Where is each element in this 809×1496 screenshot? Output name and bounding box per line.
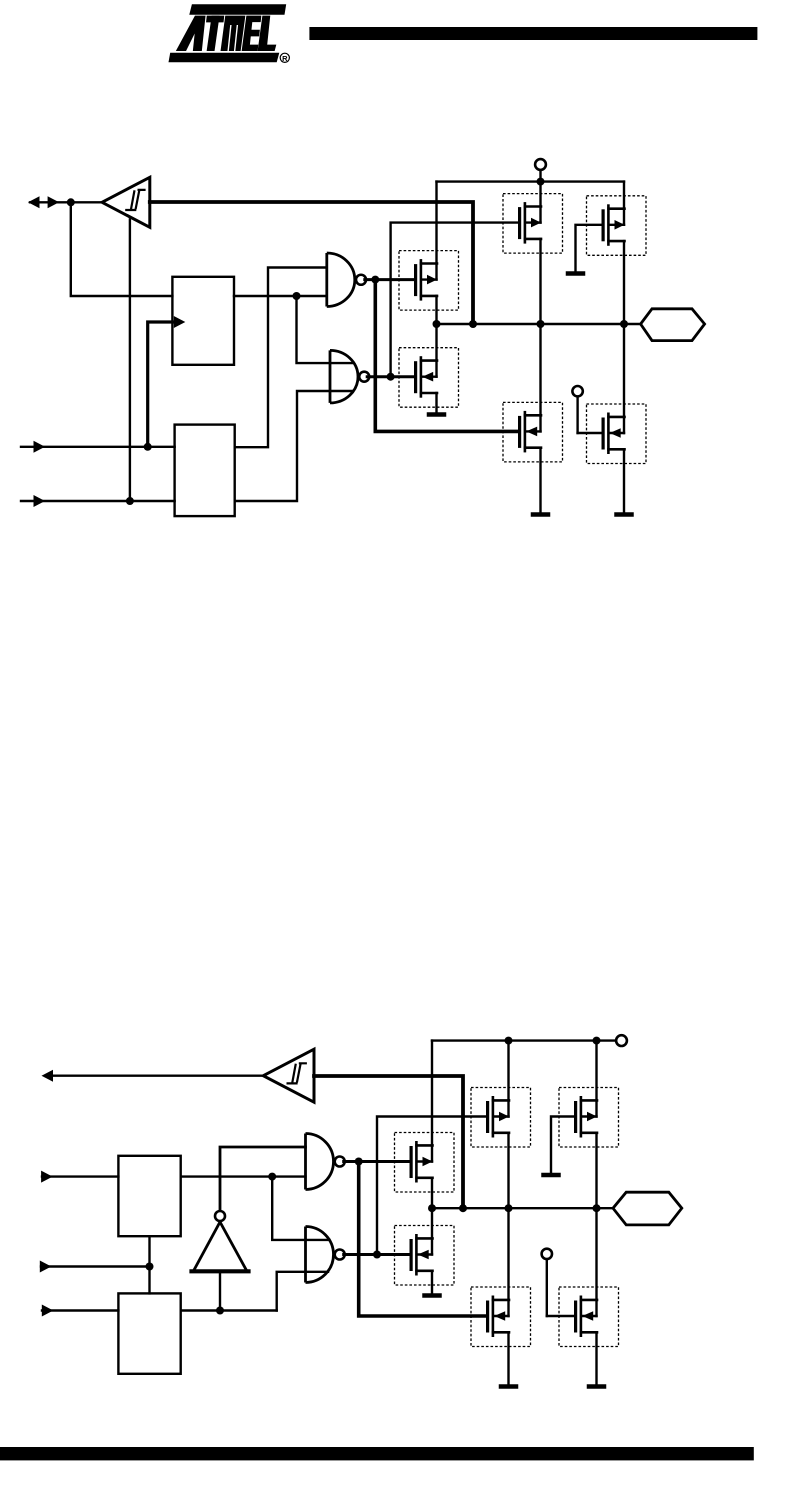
pmos P2b bbox=[559, 1088, 619, 1148]
nmos N2b bbox=[559, 1287, 619, 1347]
wire XB output to NAND GB lower input bbox=[277, 1272, 328, 1311]
wire X2 upper output to NAND G1 upper input bbox=[235, 268, 327, 448]
wire N2 source to ground bbox=[623, 449, 625, 513]
wire P1 source to output rail bbox=[539, 239, 541, 324]
wire pad to schmitt U1 bbox=[71, 201, 102, 203]
node VDD2/P1b junction bbox=[505, 1037, 513, 1045]
pmos M1 bbox=[399, 251, 459, 311]
node GB output junction bbox=[373, 1251, 381, 1259]
header rule bar bbox=[309, 27, 757, 40]
ground at P2 gate bbox=[566, 271, 586, 276]
wire X2 lower output to NAND G2 lower input bbox=[235, 391, 352, 501]
wire M1b source to output rail 2 bbox=[431, 1178, 433, 1208]
VDD terminal circle bbox=[535, 159, 546, 182]
wire VDD2 to P2b drain bbox=[595, 1041, 597, 1117]
pad bidirectional arrow bbox=[28, 196, 71, 208]
node rail2 M column bbox=[428, 1204, 436, 1212]
input IN2 arrow bbox=[21, 495, 175, 507]
wire M1 source to output rail bbox=[435, 296, 437, 324]
node rail P1/N1 column bbox=[537, 320, 545, 328]
schmitt trigger buffer U2 bbox=[263, 1049, 314, 1102]
wire pad junction down to latch X1 input bbox=[71, 202, 173, 296]
wire G2 output to P1 gate bbox=[391, 223, 518, 377]
pmos P2 bbox=[587, 196, 647, 256]
wire rail2 to N1b drain bbox=[507, 1208, 509, 1316]
thick wire G1 output to N1 gate bbox=[375, 280, 518, 432]
pmos P1 bbox=[503, 194, 563, 254]
node G2 output junction bbox=[387, 373, 395, 381]
ground at M2b bbox=[422, 1293, 442, 1298]
ground at N1 bbox=[531, 512, 551, 517]
VDD rail bbox=[437, 180, 625, 182]
input INA arrow bbox=[41, 1171, 118, 1183]
wire N2b gate bbox=[547, 1315, 574, 1317]
wire VDD to P2 drain bbox=[623, 182, 625, 225]
wire XA output to NAND GB upper input bbox=[272, 1177, 329, 1240]
wire VDD to M1 drain bbox=[435, 182, 437, 280]
latch X2 bbox=[175, 425, 235, 516]
ground at N2 bbox=[614, 512, 634, 517]
wire VDD to P1 drain bbox=[539, 182, 541, 223]
wire P2 source to output rail bbox=[623, 241, 625, 324]
ground at N2b bbox=[587, 1384, 607, 1389]
thick wire U2 input from output rail bbox=[314, 1076, 463, 1208]
node G1 output junction bbox=[371, 276, 379, 284]
node rail2 P1b/N1b column bbox=[505, 1204, 513, 1212]
node X1 output junction bbox=[293, 292, 301, 300]
wire rail to N1 drain bbox=[539, 324, 541, 431]
nand gate GA bbox=[306, 1134, 345, 1190]
node rail M column bbox=[433, 320, 441, 328]
svg-text:R: R bbox=[282, 54, 288, 63]
wire V1 input bbox=[219, 1271, 221, 1310]
node VDD2/P2b junction bbox=[593, 1037, 601, 1045]
node rail P2/N2 column bbox=[620, 320, 628, 328]
input INC arrow bbox=[42, 1305, 119, 1317]
VDD circle 2 bbox=[616, 1035, 627, 1046]
wire V1 output to NAND GA upper input bbox=[220, 1147, 306, 1211]
wire rail2 to N2b drain bbox=[595, 1208, 597, 1316]
wire GB output to P1b gate bbox=[377, 1117, 486, 1255]
input INB arrow bbox=[40, 1261, 150, 1273]
inverter V1 output bubble bbox=[215, 1211, 225, 1221]
wire N2 gate bbox=[578, 432, 602, 434]
wire G2 output to M2 gate bbox=[367, 375, 414, 378]
Atmel logo bbox=[169, 4, 290, 63]
N2b gate terminal circle bbox=[542, 1249, 552, 1316]
wire XB output bbox=[181, 1309, 277, 1311]
nmos N1 bbox=[503, 402, 563, 462]
node GA output junction bbox=[355, 1158, 363, 1166]
nmos M2b bbox=[395, 1226, 455, 1286]
wire GB output to M2b gate bbox=[344, 1253, 410, 1256]
wire M2 source to ground bbox=[435, 393, 437, 414]
node VDD/P1 junction bbox=[537, 178, 545, 186]
latch XB bbox=[118, 1293, 180, 1373]
node pad junction bbox=[67, 198, 75, 206]
pad hexagon bbox=[641, 309, 705, 341]
output rail 2 to pad bbox=[432, 1207, 613, 1209]
wire N1b source to ground bbox=[507, 1332, 509, 1385]
wire N2b source to ground bbox=[595, 1332, 597, 1385]
latch XA bbox=[118, 1156, 180, 1236]
VDD rail 2 bbox=[432, 1039, 616, 1041]
node IN1/clock junction bbox=[144, 443, 152, 451]
node INB junction bbox=[146, 1263, 154, 1271]
wire XA to XB connector bbox=[148, 1236, 150, 1293]
nand gate GB bbox=[306, 1227, 345, 1283]
pmos M1b bbox=[395, 1133, 455, 1193]
thick wire U1 input from output rail bbox=[150, 202, 473, 324]
node rail2 schmitt feed bbox=[459, 1204, 467, 1212]
wire P2b source to output rail 2 bbox=[595, 1133, 597, 1208]
wire P2 gate to ground bbox=[576, 225, 602, 273]
node rail2 P2b/N2b column bbox=[593, 1204, 601, 1212]
footer rule bar bbox=[0, 1447, 754, 1460]
wire GA output to M1b gate bbox=[344, 1160, 410, 1163]
wire U1 enable to input2 line bbox=[129, 220, 131, 502]
wire P2b gate to ground bbox=[551, 1117, 574, 1175]
ground at M2 bbox=[427, 412, 447, 417]
wire VDD2 to M1b drain bbox=[431, 1041, 433, 1162]
thick wire GA output to N1b gate bbox=[359, 1162, 486, 1317]
node XB output junction bbox=[216, 1307, 224, 1315]
ground at N1b bbox=[499, 1384, 519, 1389]
inverter V1 bbox=[192, 1222, 249, 1271]
nand gate G2 bbox=[330, 350, 369, 403]
wire rail2 to M2b drain bbox=[431, 1208, 433, 1254]
wire M2b source to ground bbox=[431, 1271, 433, 1295]
latch X1 bbox=[172, 277, 234, 365]
wire G1 output to M1 gate bbox=[365, 278, 414, 281]
nmos N2 bbox=[587, 404, 647, 464]
wire XA output to NAND GA lower input bbox=[181, 1175, 306, 1177]
node XA output junction bbox=[268, 1173, 276, 1181]
input IN1 arrow bbox=[21, 441, 175, 453]
nmos N1b bbox=[471, 1287, 531, 1347]
node rail schmitt feed bbox=[469, 320, 477, 328]
clock arrow into X1 bbox=[148, 316, 186, 447]
pad hexagon 2 bbox=[613, 1192, 682, 1225]
wire rail to N2 drain bbox=[623, 324, 625, 433]
output arrow to core bbox=[42, 1070, 264, 1082]
nmos M2 bbox=[399, 348, 459, 408]
schmitt trigger buffer U1 bbox=[102, 177, 150, 227]
wire X1 output to NAND G1 lower input bbox=[234, 295, 327, 297]
wire X1 output to NAND G2 upper input bbox=[297, 296, 353, 363]
pmos P1b bbox=[471, 1088, 531, 1148]
node IN2/enable junction bbox=[126, 497, 134, 505]
ground at P2b gate bbox=[541, 1173, 561, 1178]
wire N1 source to ground bbox=[539, 448, 541, 514]
wire VDD2 to P1b drain bbox=[507, 1041, 509, 1117]
wire rail to M2 drain bbox=[435, 324, 437, 377]
wire P1b source to output rail 2 bbox=[507, 1133, 509, 1208]
nand gate G1 bbox=[327, 253, 366, 307]
N2 gate terminal circle bbox=[572, 386, 582, 433]
output rail to pad bbox=[437, 323, 641, 325]
